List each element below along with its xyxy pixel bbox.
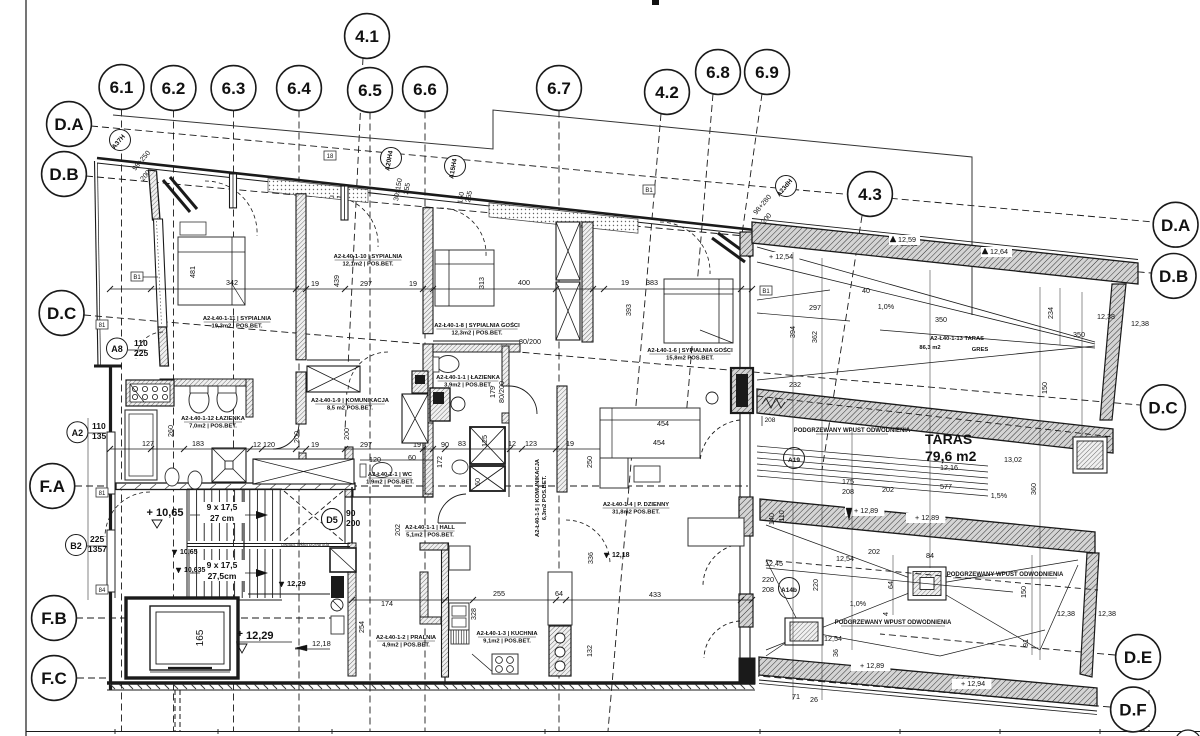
partition wall 6.4 (x296) hatched: [296, 194, 306, 360]
ref circle D5 top: [322, 509, 343, 530]
svg-text:6.8: 6.8: [706, 63, 730, 82]
grid line 6.1: [121, 110, 123, 732]
svg-text:394: 394: [788, 326, 797, 338]
axis bubble 6.3: [211, 66, 256, 111]
tiny ref box 84 elevator side: [96, 585, 108, 594]
wall stub below corridor door: [299, 453, 306, 484]
exterior wall bottom: [107, 681, 755, 684]
wc under stairs wall hatched: [348, 543, 356, 676]
svg-text:12,29: 12,29: [246, 630, 274, 642]
svg-text:31,8m2 POS.BET.: 31,8m2 POS.BET.: [612, 510, 660, 516]
nightstand bed1 left: [180, 222, 206, 235]
kitchen sink unit: [449, 603, 469, 630]
svg-text:12,38: 12,38: [1057, 609, 1075, 618]
ref circle B2: [66, 535, 87, 556]
svg-text:9 x 17,5: 9 x 17,5: [207, 502, 238, 512]
sofa living room: [600, 408, 700, 458]
svg-text:200: 200: [292, 431, 301, 443]
kitchen dishwasher striped: [451, 630, 469, 644]
staircase walk line arrows: [190, 514, 258, 516]
grid line 6.5: [369, 113, 371, 732]
svg-text:D.F: D.F: [1119, 701, 1146, 720]
terrace mid band hatched (D.C strip): [757, 389, 1113, 453]
svg-text:13,02: 13,02: [1004, 455, 1022, 464]
level 12,89 on band2: [845, 506, 884, 516]
window label A15H4 left: [445, 156, 466, 177]
svg-text:336: 336: [586, 552, 595, 564]
svg-text:F.A: F.A: [40, 477, 66, 496]
tiny ref box B1 left wall: [96, 320, 108, 329]
level 12,89b on band2: [906, 513, 945, 523]
elevator door: [168, 667, 212, 669]
door arc corridor to bath A2: [273, 424, 299, 449]
svg-text:120: 120: [369, 455, 381, 464]
svg-text:12,16: 12,16: [940, 463, 958, 472]
svg-text:12,38: 12,38: [1098, 609, 1116, 618]
svg-text:383: 383: [646, 278, 658, 287]
svg-text:90: 90: [441, 440, 449, 449]
svg-text:132: 132: [585, 645, 594, 657]
svg-text:202: 202: [882, 485, 894, 494]
witness line 234: [1059, 288, 1061, 345]
right wall hatched pier mid: [739, 497, 753, 536]
svg-text:4.1: 4.1: [355, 27, 379, 46]
door arc hall: [105, 492, 150, 537]
terrace drain symbol bottom-left: [785, 618, 823, 645]
svg-text:342: 342: [226, 278, 238, 287]
svg-text:A2-Ł40-1-8 | SYPIALNIA GOŚCI: A2-Ł40-1-8 | SYPIALNIA GOŚCI: [434, 322, 520, 329]
svg-text:250: 250: [585, 456, 594, 468]
axis bubble D.E right: [1116, 635, 1161, 680]
grid line F.B: [76, 617, 340, 619]
level 12,59 on band1: [889, 235, 920, 245]
terrace dashed line lower: [766, 560, 1098, 590]
main horizontal dimension line y289: [110, 288, 752, 290]
bathroom washer dark block: [412, 371, 428, 393]
partition wall right of shaft hatched: [582, 222, 593, 342]
svg-text:1,9m2 | POS.BET.: 1,9m2 | POS.BET.: [366, 480, 414, 486]
svg-text:439: 439: [332, 275, 341, 287]
svg-text:F.B: F.B: [41, 609, 67, 628]
svg-text:1,0%: 1,0%: [850, 599, 867, 608]
svg-text:+: +: [237, 629, 243, 640]
svg-text:+ 12,54: + 12,54: [769, 252, 793, 261]
svg-text:202: 202: [393, 524, 402, 536]
svg-text:36: 36: [831, 649, 840, 657]
bathtub bathroom A2: [125, 410, 157, 480]
axis bubble D.F right: [1111, 687, 1156, 732]
svg-text:110: 110: [134, 338, 148, 348]
small table living: [634, 466, 660, 482]
door arc guest2 top: [660, 222, 710, 274]
door arc bedroom1 top: [205, 181, 257, 236]
svg-text:B1: B1: [645, 188, 653, 194]
svg-text:D.E: D.E: [1124, 648, 1152, 667]
axis bubble F.C left: [32, 656, 77, 701]
axis bubble 6.2: [151, 66, 196, 111]
svg-text:79,6 m2: 79,6 m2: [925, 448, 977, 464]
svg-text:A2-Ł40-1-12 ŁAZIENKA: A2-Ł40-1-12 ŁAZIENKA: [181, 416, 246, 422]
svg-text:7,0m2 | POS.BET.: 7,0m2 | POS.BET.: [189, 424, 237, 430]
svg-text:19,3m2 | POS.BET.: 19,3m2 | POS.BET.: [212, 324, 263, 330]
terrace dim line 350 upper: [880, 330, 1095, 348]
svg-text:D.C: D.C: [1148, 398, 1177, 417]
shaft X small near WC: [470, 427, 505, 464]
svg-text:297: 297: [809, 303, 821, 312]
grid line D.B: [86, 176, 1151, 273]
svg-text:172: 172: [435, 456, 444, 468]
wide shaft X box above stairs: [253, 459, 354, 484]
living dimension line y600: [352, 599, 752, 601]
property boundary line: [113, 110, 972, 315]
svg-text:254: 254: [357, 621, 366, 633]
svg-text:12,38: 12,38: [1131, 319, 1149, 328]
svg-text:A2-Ł40-1-1 | ŁAZIENKA: A2-Ł40-1-1 | ŁAZIENKA: [436, 375, 501, 381]
svg-text:+ 12,89: + 12,89: [860, 661, 884, 670]
svg-text:90: 90: [346, 508, 356, 518]
svg-text:F.C: F.C: [41, 669, 67, 688]
svg-text:10,65: 10,65: [180, 549, 198, 556]
window jamb on top wall 2: [341, 186, 348, 220]
level marker 12,29 small: [279, 582, 284, 587]
middle bathroom washbasin unit dark: [430, 388, 450, 421]
witness line col f: [1039, 287, 1041, 660]
terrace slope lines upper zone: [757, 247, 1095, 342]
svg-text:A2-Ł40-1-9 | KOMUNIKACJA: A2-Ł40-1-9 | KOMUNIKACJA: [311, 398, 390, 404]
svg-text:64: 64: [886, 581, 895, 589]
svg-text:3,9m2 | POS.BET.: 3,9m2 | POS.BET.: [444, 383, 492, 389]
axis bubble 6.6: [403, 67, 448, 112]
witness line 150 lower: [1031, 555, 1033, 655]
witness line col b: [821, 258, 823, 700]
axis bubble 6.4: [277, 66, 322, 111]
svg-text:183: 183: [192, 439, 204, 448]
svg-text:362: 362: [810, 331, 819, 343]
svg-text:350: 350: [935, 315, 947, 324]
exterior boundary left upper thin double: [95, 161, 99, 367]
svg-text:+ 10,65: + 10,65: [146, 507, 183, 519]
window sill dotted band 2: [489, 203, 638, 233]
svg-text:PODGRZEWANY WPUST ODWODNIENIA: PODGRZEWANY WPUST ODWODNIENIA: [947, 572, 1064, 578]
svg-text:18: 18: [327, 154, 334, 160]
terrace dim line left 297: [757, 313, 850, 321]
svg-text:19: 19: [409, 279, 417, 288]
axis bubble D.B left: [42, 152, 87, 197]
terrace right wall upper hatched: [1100, 284, 1126, 420]
stair well walls: [116, 483, 355, 490]
door arc guest bed top: [440, 208, 486, 256]
svg-text:8,5 m2 POS.BET.: 8,5 m2 POS.BET.: [327, 406, 373, 412]
svg-text:60: 60: [473, 478, 482, 486]
svg-text:297: 297: [360, 440, 372, 449]
witness line 394-362 col a: [792, 252, 794, 700]
svg-text:150: 150: [1019, 586, 1028, 598]
svg-text:6.3: 6.3: [222, 79, 246, 98]
svg-text:B1: B1: [133, 275, 141, 281]
exterior wall top sloped inner line: [97, 163, 755, 235]
svg-text:6.7: 6.7: [547, 79, 571, 98]
svg-text:D.C: D.C: [47, 304, 76, 323]
grid line 4.1 leader: [345, 58, 363, 430]
svg-text:91: 91: [1021, 639, 1030, 647]
tiny ref box 18 top wall: [324, 151, 336, 160]
chimney diagonal mark near corner 6.9: [712, 238, 745, 262]
axis bubble D.B right: [1151, 254, 1196, 299]
staircase landing line: [187, 543, 350, 545]
axis bubble 6.8: [696, 50, 741, 95]
right wall hatched pier top: [740, 232, 753, 256]
kitchen wall x445: [444, 545, 446, 683]
svg-text:80/200: 80/200: [519, 337, 541, 346]
svg-text:4: 4: [881, 612, 890, 616]
bed bedroom 1: [178, 237, 245, 305]
svg-text:225: 225: [134, 348, 148, 358]
axis bubble 4.1: [345, 14, 390, 59]
section mark double dash bottom left: [174, 690, 176, 731]
svg-text:12,59: 12,59: [898, 235, 916, 244]
grid line F.A: [75, 485, 748, 487]
svg-text:D.B: D.B: [49, 165, 78, 184]
svg-text:200: 200: [342, 428, 351, 440]
svg-text:123: 123: [525, 439, 537, 448]
WC-bath middle block walls: [345, 447, 353, 497]
grid line 4.2 leader: [608, 114, 661, 731]
axis bubble D.A left: [47, 102, 92, 147]
svg-text:D.A: D.A: [1161, 216, 1190, 235]
ref circle A8: [107, 338, 128, 359]
svg-text:A2-Ł40-1-13 TARAS: A2-Ł40-1-13 TARAS: [930, 336, 984, 342]
terrace gutter parallel lines: [757, 446, 988, 466]
window sill dotted band 1: [268, 179, 368, 203]
kitchen wall stub y543: [420, 543, 448, 550]
level 12,94 on band4: [952, 679, 991, 689]
tall shaft boxes with X near 6.7: [556, 222, 580, 280]
level marker 12,18 bottom: [295, 645, 307, 651]
chimney diagonal mark top-left: [163, 180, 190, 212]
svg-text:12,54: 12,54: [836, 554, 854, 563]
witness line col e: [892, 555, 894, 615]
terrace dashed ridge line upper: [757, 396, 1113, 437]
axis bubble F.B left: [32, 596, 77, 641]
shower hatched block bathroom A2: [126, 380, 174, 406]
grid line 6.2: [173, 111, 175, 732]
bathroom tall X shaft: [402, 394, 428, 443]
grid line 6.9 leader: [742, 94, 762, 234]
section mark double dash bottom right: [1143, 690, 1145, 731]
drawing frame left border: [25, 0, 27, 736]
stair count label 1: [200, 502, 245, 523]
terrace drain symbol mid: [908, 567, 946, 600]
svg-text:A2-Ł40-1-11 | SYPIALNIA: A2-Ł40-1-11 | SYPIALNIA: [203, 316, 272, 322]
svg-text:+ 12,94: + 12,94: [961, 679, 985, 688]
svg-text:B1: B1: [762, 289, 770, 295]
svg-text:454: 454: [657, 419, 669, 428]
ref circle A2: [67, 422, 88, 443]
grid line 6.6: [424, 112, 426, 732]
svg-text:297: 297: [360, 279, 372, 288]
svg-text:64: 64: [555, 589, 563, 598]
svg-text:12,64: 12,64: [990, 247, 1008, 256]
wc toilet small: [372, 463, 392, 478]
svg-text:10,635: 10,635: [184, 567, 206, 574]
svg-text:127: 127: [142, 439, 154, 448]
stair count label 2: [200, 560, 245, 581]
svg-text:6.1: 6.1: [110, 78, 134, 97]
svg-text:313: 313: [477, 277, 486, 289]
lower dimension line y449: [110, 448, 600, 450]
svg-text:TARAS: TARAS: [925, 431, 972, 447]
svg-text:B2: B2: [70, 541, 82, 551]
svg-text:GRES: GRES: [972, 347, 989, 353]
svg-text:27 cm: 27 cm: [210, 513, 235, 523]
floor lamp living: [706, 392, 718, 404]
bed guest bedroom 2: [664, 279, 733, 343]
exterior wall top sloped outer line: [97, 158, 755, 230]
svg-text:26: 26: [810, 695, 818, 704]
wc under stairs fixtures: [330, 548, 356, 572]
axis bubble 6.1: [99, 65, 144, 110]
axis bubble 4.2: [645, 70, 690, 115]
exterior wall left lower: [109, 366, 112, 691]
svg-text:6,3m2 POS.BET.: 6,3m2 POS.BET.: [542, 475, 548, 520]
sofa chaise part: [600, 458, 628, 488]
svg-text:165: 165: [195, 629, 206, 646]
svg-text:81: 81: [99, 491, 106, 497]
svg-text:A2-Ł40-1-2 | PRALNIA: A2-Ł40-1-2 | PRALNIA: [376, 635, 437, 641]
svg-text:A2-Ł40-1-3 | KUCHNIA: A2-Ł40-1-3 | KUCHNIA: [476, 631, 538, 637]
svg-text:12,3m2 | POS.BET.: 12,3m2 | POS.BET.: [452, 331, 503, 337]
svg-text:12,29: 12,29: [287, 579, 306, 588]
axis bubble 6.9: [745, 50, 790, 95]
svg-text:232: 232: [789, 380, 801, 389]
svg-text:5,1m2 | POS.BET.: 5,1m2 | POS.BET.: [406, 533, 454, 539]
left dim column x88: [87, 418, 89, 600]
staircase treads lower flight: [188, 549, 190, 598]
svg-text:D.B: D.B: [1159, 267, 1188, 286]
svg-text:19: 19: [566, 439, 574, 448]
middle bathroom sink circle: [451, 397, 465, 411]
kitchen counter corner diagonal: [472, 654, 495, 674]
svg-text:9 x 17,5: 9 x 17,5: [207, 560, 238, 570]
svg-text:19: 19: [621, 278, 629, 287]
terrace upper band hatched (balcony edge top): [752, 222, 1138, 284]
svg-text:A2-Ł40-1-5 | KOMUNIKACJA: A2-Ł40-1-5 | KOMUNIKACJA: [535, 458, 541, 537]
right wall dark shaft box: [731, 368, 753, 413]
window jamb on top wall 1: [230, 174, 237, 208]
axis bubble 4.3: [848, 172, 893, 217]
grid line 4.3 leader: [822, 216, 862, 470]
svg-text:9,1m2 | POS.BET.: 9,1m2 | POS.BET.: [483, 639, 531, 645]
left lower window frames: [107, 432, 115, 494]
exterior wall step at D.C: [94, 365, 122, 368]
svg-text:400: 400: [518, 278, 530, 287]
svg-text:27,5cm: 27,5cm: [208, 571, 237, 581]
svg-text:D.A: D.A: [54, 115, 83, 134]
witness line col c: [851, 430, 853, 650]
svg-text:577: 577: [940, 482, 952, 491]
svg-text:15,8m2 POS.BET.: 15,8m2 POS.BET.: [666, 356, 714, 362]
svg-text:1,0%: 1,0%: [878, 302, 895, 311]
svg-text:12,18: 12,18: [612, 552, 630, 559]
svg-text:6.2: 6.2: [162, 79, 186, 98]
svg-text:234: 234: [1046, 307, 1055, 319]
window label A20H4: [381, 148, 402, 169]
door arc bedroom2 top: [330, 196, 378, 247]
svg-text:12,54: 12,54: [824, 634, 842, 643]
svg-text:+ 12,89: + 12,89: [915, 513, 939, 522]
svg-text:40: 40: [862, 286, 870, 295]
svg-text:481: 481: [188, 266, 197, 278]
svg-text:D5: D5: [326, 515, 338, 525]
door arc komunikacja: [348, 352, 388, 392]
level 12,89 on band4: [851, 661, 890, 671]
svg-text:150: 150: [1040, 382, 1049, 394]
svg-text:350: 350: [1073, 330, 1085, 339]
level marker 12,18: [604, 553, 609, 558]
svg-text:110: 110: [92, 421, 106, 431]
terrace drain symbol right: [1073, 437, 1107, 473]
svg-text:328: 328: [469, 608, 478, 620]
svg-text:255: 255: [493, 589, 505, 598]
elevator car: [150, 606, 230, 670]
toilet pair bathroom A2: [189, 387, 209, 413]
level 12,54 on band1 left: [760, 252, 799, 262]
door arc living entry: [566, 520, 610, 564]
svg-text:393: 393: [624, 304, 633, 316]
svg-text:A2-Ł40-1-4 | P. DZIENNY: A2-Ł40-1-4 | P. DZIENNY: [603, 502, 669, 508]
svg-text:6.6: 6.6: [413, 80, 437, 99]
svg-text:140: 140: [767, 513, 776, 525]
door arc middle bath: [438, 494, 466, 523]
grid line 6.7: [558, 111, 560, 732]
grid line 6.4: [298, 111, 300, 732]
svg-text:1,5%: 1,5%: [991, 491, 1008, 500]
grid line F.C: [77, 677, 112, 679]
svg-text:433: 433: [649, 590, 661, 599]
window label A23dH: [776, 176, 797, 197]
terrace slope lines lower zone: [766, 525, 929, 585]
svg-text:202: 202: [868, 547, 880, 556]
svg-text:260: 260: [166, 425, 175, 437]
level 12,64 on band1: [981, 247, 1012, 257]
tiny ref box B1 stair side: [96, 488, 108, 497]
svg-text:454: 454: [653, 438, 665, 447]
partition wall 6.6 (x423) hatched: [423, 208, 433, 334]
staircase side rails: [186, 489, 188, 600]
ref circle A19 terrace: [784, 448, 805, 469]
level small 10,65: [172, 550, 177, 555]
svg-text:12,38: 12,38: [1097, 312, 1115, 321]
svg-text:PODGRZEWANY WPUST ODWODNIENIA: PODGRZEWANY WPUST ODWODNIENIA: [794, 428, 911, 434]
svg-text:220: 220: [762, 575, 774, 584]
svg-text:110: 110: [777, 510, 786, 521]
axis bubble D.C right: [1141, 385, 1186, 430]
axis bubble D.A right: [1153, 202, 1198, 247]
svg-text:1357: 1357: [88, 544, 107, 554]
svg-text:360: 360: [1029, 483, 1038, 495]
svg-text:225: 225: [90, 534, 104, 544]
svg-text:125: 125: [480, 435, 489, 447]
closet X-box in corridor: [307, 366, 360, 392]
svg-text:12 120: 12 120: [253, 440, 275, 449]
shower square bathroom A2: [212, 448, 246, 482]
wall left of living room x558: [557, 386, 567, 492]
axis bubble D.C left: [39, 291, 84, 336]
sinks bathroom A2: [165, 468, 179, 486]
middle bathroom toilet: [437, 356, 459, 373]
terrace door swing arcs: [700, 420, 740, 462]
window label A37H: [110, 130, 131, 151]
